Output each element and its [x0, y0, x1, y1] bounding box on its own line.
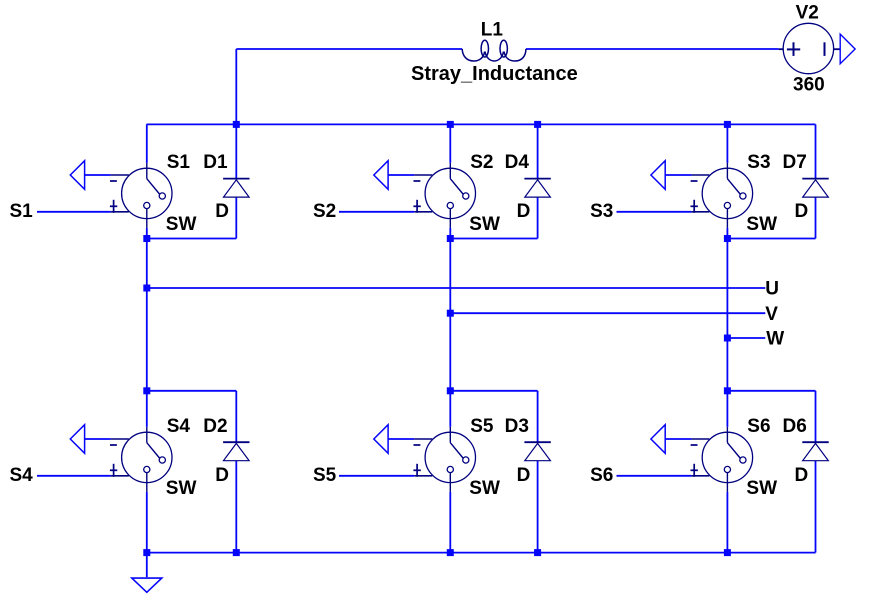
svg-text:D: D [517, 201, 531, 222]
svg-text:S4: S4 [167, 416, 191, 437]
svg-text:S6: S6 [590, 465, 613, 486]
svg-text:V2: V2 [796, 2, 819, 23]
svg-text:Stray_Inductance: Stray_Inductance [411, 63, 578, 85]
svg-text:S1: S1 [10, 201, 34, 222]
svg-text:D: D [215, 465, 229, 486]
svg-text:D: D [795, 201, 809, 222]
svg-text:SW: SW [746, 478, 777, 499]
svg-text:S4: S4 [10, 465, 34, 486]
svg-text:D6: D6 [783, 416, 807, 437]
svg-text:D4: D4 [505, 152, 530, 173]
svg-text:S3: S3 [747, 152, 770, 173]
svg-text:S1: S1 [167, 152, 191, 173]
svg-text:SW: SW [746, 214, 777, 235]
svg-text:S6: S6 [747, 416, 770, 437]
svg-text:S5: S5 [313, 465, 337, 486]
svg-text:D1: D1 [203, 152, 228, 173]
svg-text:L1: L1 [481, 19, 504, 40]
svg-text:SW: SW [166, 214, 197, 235]
svg-text:W: W [766, 328, 784, 349]
svg-text:D3: D3 [505, 416, 529, 437]
svg-text:D7: D7 [783, 152, 807, 173]
svg-text:S2: S2 [470, 152, 493, 173]
svg-text:V: V [765, 304, 778, 325]
svg-text:SW: SW [166, 478, 197, 499]
svg-text:SW: SW [469, 214, 500, 235]
svg-text:S5: S5 [470, 416, 494, 437]
svg-text:360: 360 [793, 75, 825, 96]
svg-text:D2: D2 [203, 416, 227, 437]
svg-text:D: D [517, 465, 531, 486]
svg-text:D: D [795, 465, 809, 486]
svg-text:U: U [765, 279, 779, 300]
svg-text:SW: SW [469, 478, 500, 499]
svg-text:S3: S3 [590, 201, 613, 222]
svg-text:S2: S2 [313, 201, 336, 222]
svg-text:D: D [215, 201, 229, 222]
